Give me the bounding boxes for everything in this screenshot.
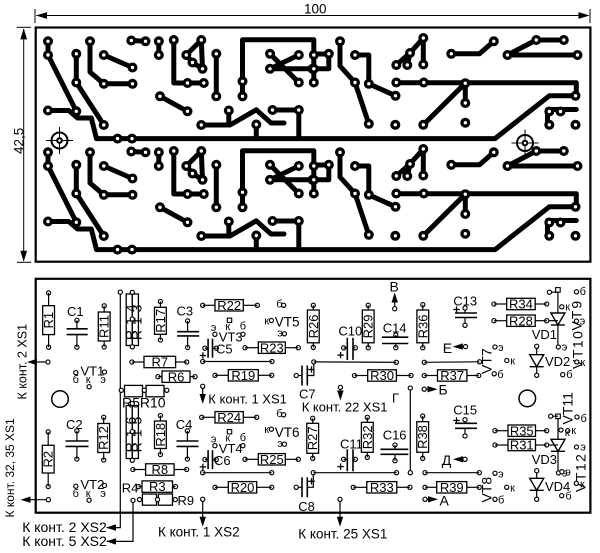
svg-text:VD1: VD1 (532, 327, 557, 342)
svg-text:VT7: VT7 (479, 348, 495, 374)
svg-text:R34: R34 (509, 297, 533, 312)
svg-text:R22: R22 (217, 298, 241, 313)
svg-text:R17: R17 (153, 309, 168, 333)
svg-text:C10: C10 (338, 323, 362, 338)
svg-text:C4: C4 (176, 417, 193, 432)
svg-text:К конт. 25 XS1: К конт. 25 XS1 (298, 527, 387, 542)
svg-text:В: В (390, 278, 399, 294)
svg-text:б: б (580, 286, 586, 298)
svg-text:А: А (440, 493, 450, 509)
svg-text:К конт. 1 XS1: К конт. 1 XS1 (208, 392, 287, 407)
svg-text:R7: R7 (151, 355, 168, 370)
svg-text:Е: Е (443, 340, 452, 356)
svg-text:б: б (498, 494, 504, 506)
svg-text:э: э (498, 468, 504, 480)
svg-text:к: к (580, 357, 585, 369)
svg-text:C3: C3 (177, 303, 194, 318)
svg-text:VT6: VT6 (275, 425, 300, 440)
svg-text:R1: R1 (41, 312, 56, 329)
svg-text:R30: R30 (370, 368, 394, 383)
svg-text:R12: R12 (96, 426, 111, 450)
svg-text:б: б (566, 369, 572, 381)
svg-text:R31: R31 (510, 438, 534, 453)
svg-text:100: 100 (304, 2, 327, 17)
svg-text:к: к (571, 425, 576, 437)
svg-text:R8: R8 (152, 462, 169, 477)
svg-text:э: э (498, 342, 504, 354)
svg-text:э: э (565, 467, 571, 479)
svg-text:R11: R11 (97, 315, 112, 338)
svg-text:R23: R23 (260, 340, 284, 355)
svg-text:R6: R6 (168, 369, 185, 384)
svg-text:Б: Б (439, 382, 448, 398)
svg-text:R9: R9 (178, 493, 195, 508)
svg-text:R20: R20 (231, 480, 255, 495)
svg-text:К конт. 32, 35 XS1: К конт. 32, 35 XS1 (3, 418, 17, 518)
svg-text:VT11: VT11 (560, 392, 576, 425)
svg-text:э: э (562, 342, 568, 354)
svg-text:C16: C16 (383, 428, 407, 443)
svg-text:э: э (580, 315, 586, 327)
svg-text:R25: R25 (260, 452, 284, 467)
svg-text:Г: Г (392, 391, 399, 406)
svg-text:э: э (100, 374, 106, 386)
svg-text:R28: R28 (509, 313, 533, 328)
svg-text:C15: C15 (453, 403, 477, 418)
svg-text:б: б (497, 369, 503, 381)
svg-text:R5R10: R5R10 (122, 395, 166, 411)
svg-text:R26: R26 (306, 314, 321, 338)
svg-text:R36: R36 (415, 314, 430, 338)
svg-text:К конт. 5 XS2: К конт. 5 XS2 (22, 533, 107, 549)
svg-text:VT5: VT5 (275, 314, 300, 329)
svg-text:б: б (73, 488, 79, 500)
svg-text:42,5: 42,5 (12, 128, 27, 154)
svg-text:R2: R2 (41, 451, 56, 468)
svg-text:C11: C11 (340, 436, 363, 451)
svg-text:к: к (264, 424, 269, 436)
svg-text:R19: R19 (231, 368, 255, 383)
svg-text:C1: C1 (67, 304, 84, 319)
svg-text:э: э (100, 488, 106, 500)
svg-text:R3: R3 (149, 479, 166, 494)
svg-text:К конт. 2 XS1: К конт. 2 XS1 (16, 324, 30, 400)
svg-text:R24: R24 (217, 410, 241, 425)
svg-text:C14: C14 (383, 321, 407, 336)
svg-text:С5: С5 (216, 342, 233, 357)
svg-text:э: э (580, 442, 586, 454)
svg-text:к: к (580, 478, 585, 490)
svg-text:C8: C8 (298, 499, 315, 514)
svg-text:б: б (565, 491, 571, 503)
svg-text:С6: С6 (214, 453, 231, 468)
svg-text:R4: R4 (122, 481, 139, 496)
svg-text:б: б (73, 374, 79, 386)
svg-text:К конт. 1 XS2: К конт. 1 XS2 (158, 525, 240, 540)
svg-text:VT8: VT8 (479, 477, 495, 503)
svg-text:R18: R18 (153, 423, 168, 447)
svg-text:R29: R29 (361, 314, 376, 338)
svg-text:К конт. 22 XS1: К конт. 22 XS1 (302, 400, 388, 415)
svg-text:к: к (264, 315, 269, 327)
svg-text:Д: Д (442, 452, 452, 468)
svg-text:R33: R33 (370, 480, 394, 495)
svg-text:к: к (510, 482, 515, 494)
svg-text:к: к (510, 356, 515, 368)
svg-text:б: б (581, 413, 587, 425)
svg-text:VD2: VD2 (545, 354, 570, 369)
svg-text:VD3: VD3 (532, 452, 557, 467)
svg-text:C2: C2 (66, 417, 83, 432)
svg-text:R35: R35 (510, 423, 534, 438)
svg-text:к: к (565, 427, 570, 439)
svg-text:R38: R38 (415, 425, 430, 449)
svg-text:R27: R27 (305, 426, 320, 450)
